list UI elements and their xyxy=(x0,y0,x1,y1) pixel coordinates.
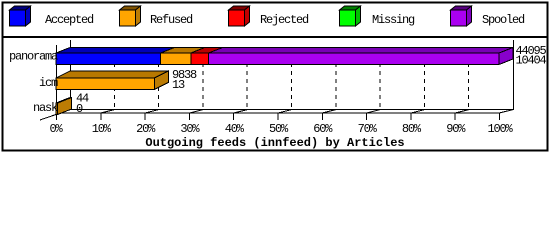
svg-text:Outgoing feeds (innfeed) by Ar: Outgoing feeds (innfeed) by Articles xyxy=(145,136,404,150)
svg-text:icm: icm xyxy=(39,76,58,90)
svg-text:60%: 60% xyxy=(313,122,333,136)
svg-text:0%: 0% xyxy=(49,122,63,136)
svg-text:13: 13 xyxy=(172,78,185,92)
svg-text:90%: 90% xyxy=(446,122,466,136)
svg-text:100%: 100% xyxy=(487,122,513,136)
svg-text:Missing: Missing xyxy=(372,13,415,27)
svg-text:20%: 20% xyxy=(136,122,156,136)
svg-text:30%: 30% xyxy=(180,122,200,136)
svg-text:70%: 70% xyxy=(358,122,378,136)
svg-text:Refused: Refused xyxy=(150,13,193,27)
svg-text:panorama: panorama xyxy=(9,50,58,64)
svg-text:50%: 50% xyxy=(269,122,289,136)
svg-text:10%: 10% xyxy=(92,122,112,136)
svg-text:0: 0 xyxy=(76,102,83,116)
svg-text:Spooled: Spooled xyxy=(482,13,525,27)
svg-text:Accepted: Accepted xyxy=(45,13,94,27)
svg-text:nask: nask xyxy=(33,101,58,115)
svg-text:10404: 10404 xyxy=(516,54,547,68)
svg-text:40%: 40% xyxy=(225,122,245,136)
svg-text:80%: 80% xyxy=(402,122,422,136)
svg-text:Rejected: Rejected xyxy=(260,13,309,27)
